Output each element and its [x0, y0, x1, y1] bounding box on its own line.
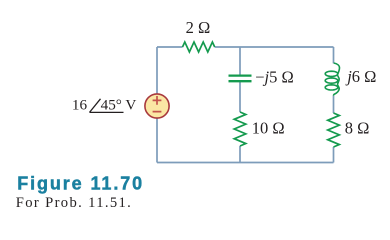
svg-text:10 Ω: 10 Ω [252, 118, 285, 137]
svg-text:2 Ω: 2 Ω [186, 18, 211, 37]
svg-text:j6 Ω: j6 Ω [345, 67, 376, 86]
svg-text:Figure 11.70: Figure 11.70 [17, 173, 144, 193]
svg-text:8 Ω: 8 Ω [345, 118, 370, 137]
svg-text:16: 16 [72, 97, 88, 114]
svg-text:−j5 Ω: −j5 Ω [255, 68, 294, 87]
svg-text:For Prob. 11.51.: For Prob. 11.51. [16, 195, 132, 211]
svg-text:45° V: 45° V [101, 97, 137, 114]
